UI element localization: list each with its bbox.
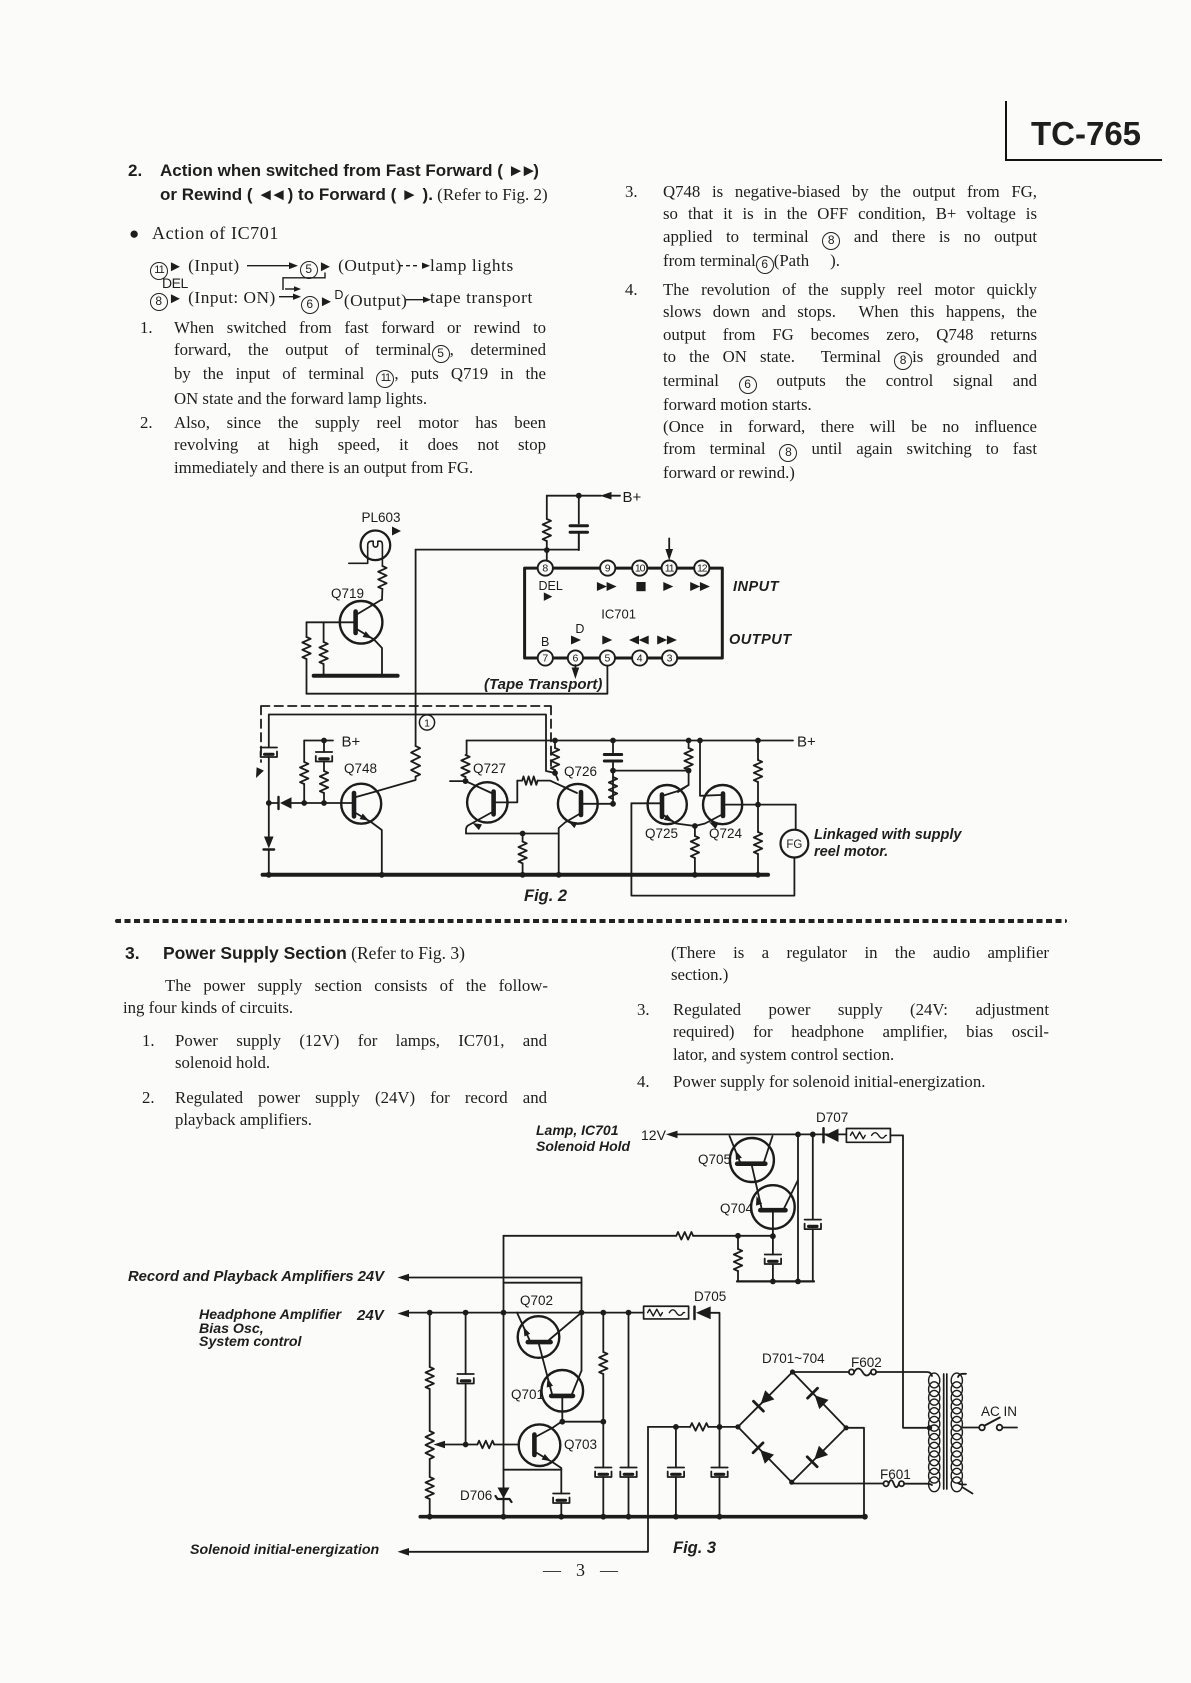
svg-text:6: 6	[572, 653, 578, 665]
svg-text:Q705: Q705	[698, 1152, 731, 1167]
svg-text:IC701: IC701	[601, 606, 636, 621]
svg-text:9: 9	[605, 563, 611, 575]
svg-text:Q703: Q703	[564, 1437, 597, 1452]
svg-text:11: 11	[665, 563, 675, 575]
svg-text:D: D	[575, 622, 584, 636]
svg-text:Q704: Q704	[720, 1201, 754, 1216]
svg-text:PL603: PL603	[362, 510, 401, 525]
svg-text:D706: D706	[460, 1488, 492, 1503]
svg-text:B+: B+	[797, 734, 816, 751]
svg-text:DEL: DEL	[539, 579, 563, 593]
svg-text:12V: 12V	[641, 1127, 667, 1143]
svg-text:F601: F601	[880, 1467, 911, 1482]
svg-text:D707: D707	[816, 1110, 848, 1125]
svg-text:B: B	[541, 635, 549, 649]
svg-text:Q719: Q719	[331, 586, 364, 601]
svg-text:12: 12	[697, 563, 708, 575]
svg-text:FG: FG	[786, 839, 802, 851]
svg-text:1: 1	[424, 718, 430, 730]
svg-text:8: 8	[542, 563, 548, 575]
svg-text:Q727: Q727	[473, 761, 506, 776]
svg-text:Q726: Q726	[564, 764, 597, 779]
svg-text:AC IN: AC IN	[981, 1404, 1017, 1419]
svg-text:B+: B+	[623, 489, 642, 506]
svg-text:Q701: Q701	[511, 1387, 544, 1402]
svg-text:Q725: Q725	[645, 826, 678, 841]
svg-text:Q748: Q748	[344, 761, 377, 776]
svg-text:7: 7	[542, 653, 548, 665]
svg-text:10: 10	[635, 563, 646, 575]
svg-text:B+: B+	[342, 734, 361, 751]
svg-text:4: 4	[637, 653, 643, 665]
svg-text:Q724: Q724	[709, 826, 743, 841]
svg-text:5: 5	[604, 653, 610, 665]
svg-text:D701~704: D701~704	[762, 1351, 825, 1366]
svg-text:3: 3	[667, 653, 673, 665]
svg-text:D705: D705	[694, 1289, 726, 1304]
svg-text:F602: F602	[851, 1355, 882, 1370]
svg-text:Q702: Q702	[520, 1293, 553, 1308]
